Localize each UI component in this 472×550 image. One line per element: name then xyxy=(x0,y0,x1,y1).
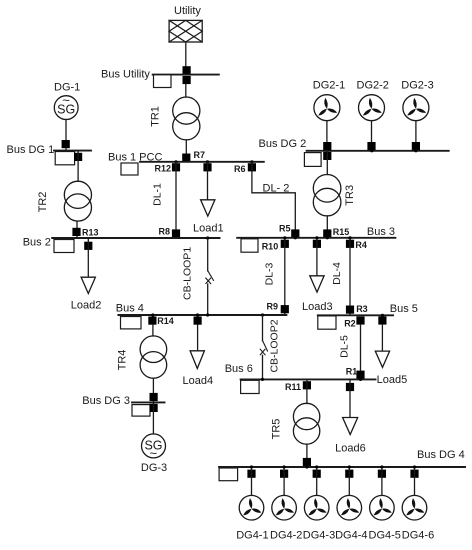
svg-text:CB-LOOP1: CB-LOOP1 xyxy=(181,247,193,300)
bus Bus 4 xyxy=(118,314,286,316)
breaker square upper (utility) xyxy=(183,66,191,74)
svg-text:TR3: TR3 xyxy=(344,185,356,206)
svg-text:TR4: TR4 xyxy=(117,350,129,371)
label DG4-1 xyxy=(236,530,268,542)
relay R14 xyxy=(148,317,156,325)
svg-text:~: ~ xyxy=(150,446,158,461)
wire DG-1 to breaker xyxy=(65,120,67,151)
bus symbol rect (Bus 6) xyxy=(241,380,260,393)
node junction Bus4-R14 xyxy=(151,313,154,316)
wire DG4-1 xyxy=(251,467,253,495)
wire TR2 top xyxy=(77,151,79,182)
wire DG4-4 xyxy=(348,467,350,495)
label DG-1 xyxy=(54,82,80,94)
label Load6 xyxy=(335,442,366,454)
svg-text:Utility: Utility xyxy=(174,5,201,17)
node junction BusDG4-DG4-2 xyxy=(283,465,286,468)
wire R11 to TR5 xyxy=(306,379,308,403)
relay R1 xyxy=(356,371,364,379)
wire DL-3 xyxy=(284,238,286,315)
svg-text:Bus 6: Bus 6 xyxy=(225,363,253,375)
bus symbol rect (Bus 1 PCC) xyxy=(121,163,138,175)
load Load2 triangle xyxy=(81,277,95,293)
node junction BusDG4-DG4-6 xyxy=(413,465,416,468)
label Bus DG 4 xyxy=(417,449,465,461)
wire TR3 to R15 xyxy=(326,216,328,238)
label DG4-5 xyxy=(369,530,401,542)
breaker square DG4-4 xyxy=(345,470,353,478)
bus symbol rect (Bus 3) xyxy=(241,239,258,252)
load Load5 triangle xyxy=(375,351,389,367)
label R5 xyxy=(279,223,291,233)
wire DG2-3 xyxy=(415,121,417,151)
label CB-LOOP1 xyxy=(181,247,193,300)
label R10 xyxy=(262,241,279,251)
breaker square Bus DG 3 upper xyxy=(150,393,158,401)
breaker square DG4-3 xyxy=(313,470,321,478)
wire DG4-3 xyxy=(316,467,318,495)
wire Load1 drop xyxy=(207,162,209,200)
label CB-LOOP2 xyxy=(269,319,281,372)
svg-text:R15: R15 xyxy=(333,227,350,237)
label Bus DG 3 xyxy=(82,395,130,407)
svg-text:Load3: Load3 xyxy=(302,301,333,313)
svg-text:DG2-3: DG2-3 xyxy=(401,80,433,92)
bus Bus Utility xyxy=(153,74,219,76)
bus Bus 2 xyxy=(52,237,219,239)
svg-text:DG4-1: DG4-1 xyxy=(236,530,268,542)
label Utility xyxy=(174,5,201,17)
wire CB-LOOP1 upper xyxy=(207,238,209,271)
load Load6 triangle xyxy=(343,418,358,435)
generator DG-1 xyxy=(54,93,78,120)
breaker square DG4-1 xyxy=(247,470,255,478)
svg-text:R3: R3 xyxy=(356,304,368,314)
svg-text:Bus 2: Bus 2 xyxy=(23,237,51,249)
relay R8 xyxy=(172,229,180,237)
label TR2 xyxy=(37,192,49,213)
relay R13 xyxy=(72,228,80,236)
node junction Bus4-Load4 xyxy=(196,313,199,316)
label DG2-2 xyxy=(357,80,389,92)
node junction Bus1-Load1 xyxy=(206,160,209,163)
wire DG4-6 xyxy=(414,467,416,495)
label DG4-4 xyxy=(335,530,367,542)
wind generator DG2-1 xyxy=(314,95,340,121)
wire CB-LOOP2 lower xyxy=(262,355,264,379)
label R7 xyxy=(194,150,206,160)
wire Load3 drop xyxy=(316,238,318,275)
wire CB-LOOP2 upper xyxy=(262,315,264,341)
breaker square TR3 top xyxy=(323,152,331,160)
load Load1 triangle xyxy=(201,200,215,216)
label Bus DG 1 xyxy=(7,144,55,156)
svg-text:Load2: Load2 xyxy=(71,300,102,312)
label R11 xyxy=(285,382,301,392)
svg-text:R13: R13 xyxy=(82,228,99,238)
svg-text:Bus Utility: Bus Utility xyxy=(101,69,150,81)
svg-text:Bus 1 PCC: Bus 1 PCC xyxy=(108,152,162,164)
wind generator DG4-1 xyxy=(239,495,264,520)
label R2 xyxy=(344,319,356,329)
breaker blade CB-LOOP2 xyxy=(263,341,268,351)
label TR3 xyxy=(344,185,356,206)
node junction Bus4-CBLOOP2 xyxy=(261,313,264,316)
relay Load4 feeder xyxy=(194,317,202,325)
node junction Bus4-CBLOOP1 xyxy=(206,313,209,316)
wind generator DG4-6 xyxy=(402,495,427,520)
svg-text:DG4-4: DG4-4 xyxy=(335,530,367,542)
svg-text:DL-5: DL-5 xyxy=(338,335,350,358)
label Bus 5 xyxy=(390,303,418,315)
label DG4-2 xyxy=(270,530,302,542)
node junction Bus3-Load3 xyxy=(315,236,318,239)
node junction BusDG4-DG4-4 xyxy=(348,465,351,468)
label R14 xyxy=(157,316,174,326)
transformer TR2 xyxy=(64,181,91,221)
transformer TR4 xyxy=(140,336,167,378)
svg-text:R4: R4 xyxy=(355,240,367,250)
relay R2 xyxy=(356,316,364,324)
label DG4-6 xyxy=(402,530,434,542)
label DL-4 xyxy=(331,262,343,285)
breaker square DG2-3 xyxy=(412,142,420,150)
bus symbol rect (Bus Utility) xyxy=(154,75,172,88)
label R4 xyxy=(355,240,367,250)
node junction Bus1-DL2 xyxy=(250,160,253,163)
svg-text:DG4-3: DG4-3 xyxy=(303,530,335,542)
label TR1 xyxy=(150,106,162,127)
relay Load1 feeder xyxy=(203,163,211,171)
svg-text:Bus 3: Bus 3 xyxy=(367,226,395,238)
label DG2-1 xyxy=(313,80,345,92)
label Load5 xyxy=(377,374,408,386)
label Bus 4 xyxy=(116,303,144,315)
label Load3 xyxy=(302,301,333,313)
relay R12 xyxy=(172,163,180,171)
bus Bus DG 1 xyxy=(54,150,91,152)
svg-text:R7: R7 xyxy=(194,150,206,160)
transformer TR1 xyxy=(173,97,200,140)
label DL-1 xyxy=(152,183,164,206)
svg-text:TR1: TR1 xyxy=(150,106,162,127)
svg-text:R14: R14 xyxy=(157,316,174,326)
wire DL-4 xyxy=(349,238,351,315)
wire TR2 to R13 xyxy=(76,221,78,238)
bus Bus 5 xyxy=(318,314,393,316)
node junction Bus3-R5 xyxy=(294,236,297,239)
utility source symbol xyxy=(169,20,202,42)
label R3 xyxy=(356,304,368,314)
wire DG4-5 xyxy=(381,467,383,495)
relay R4 xyxy=(346,240,354,248)
label TR5 xyxy=(271,419,283,440)
breaker square DG2-2 xyxy=(367,142,375,150)
svg-text:R9: R9 xyxy=(267,302,279,312)
relay Load5 feeder xyxy=(378,316,386,324)
wind generator DG4-3 xyxy=(304,495,329,520)
node junction Bus3-DL4 xyxy=(348,236,351,239)
wind generator DG2-2 xyxy=(359,95,385,121)
svg-text:DL- 2: DL- 2 xyxy=(263,182,290,194)
breaker square DG-1 xyxy=(62,140,70,148)
label DL-5 xyxy=(338,335,350,358)
bus Bus DG 4 xyxy=(219,466,465,468)
svg-text:Load5: Load5 xyxy=(377,374,408,386)
bus symbol rect (Bus 5) xyxy=(318,316,336,329)
wire DL-1 xyxy=(175,162,177,238)
label Load1 xyxy=(193,222,224,234)
label Load2 xyxy=(71,300,102,312)
node junction BusDG2-DG2-2 xyxy=(370,149,373,152)
wire TR4 bottom xyxy=(152,378,154,402)
label R8 xyxy=(158,227,170,237)
wire TR4 top xyxy=(152,325,154,336)
node junction BusDG4-DG4-3 xyxy=(315,465,318,468)
breaker square DG4-2 xyxy=(280,470,288,478)
node junction BusDG2-DG2-3 xyxy=(414,149,417,152)
node junction Bus6-R1 xyxy=(359,378,362,381)
svg-text:DL-4: DL-4 xyxy=(331,262,343,285)
node junction BusDG4-DG4-5 xyxy=(380,465,383,468)
label R6 xyxy=(234,164,246,174)
load Load4 triangle xyxy=(190,351,204,369)
label Bus DG 2 xyxy=(259,138,307,150)
svg-text:DG4-5: DG4-5 xyxy=(369,530,401,542)
load Load3 triangle xyxy=(310,276,324,292)
svg-text:Bus 5: Bus 5 xyxy=(390,303,418,315)
bus Bus DG 3 xyxy=(132,401,165,403)
svg-text:Load1: Load1 xyxy=(193,222,224,234)
svg-text:R2: R2 xyxy=(344,319,356,329)
bus symbol rect (Bus DG 4) xyxy=(219,468,238,481)
generator DG-3 xyxy=(142,434,166,461)
breaker square DG4-5 xyxy=(378,470,386,478)
relay Load2 feeder xyxy=(84,242,92,250)
relay Load6 feeder xyxy=(346,383,354,391)
wire Load2 drop xyxy=(87,238,89,277)
svg-text:R5: R5 xyxy=(279,223,291,233)
label R9 xyxy=(267,302,279,312)
wire TR3 top xyxy=(326,151,328,175)
svg-text:R6: R6 xyxy=(234,164,246,174)
bus Bus 1 PCC xyxy=(140,161,264,163)
relay R7 xyxy=(182,154,190,162)
svg-text:TR2: TR2 xyxy=(37,192,49,213)
relay R15 xyxy=(323,229,331,237)
bus symbol rect (Bus DG 3) xyxy=(132,405,150,417)
svg-text:DG2-2: DG2-2 xyxy=(357,80,389,92)
bus Bus 6 xyxy=(241,378,376,380)
transformer TR3 xyxy=(313,175,341,216)
node junction Bus3-TR3 xyxy=(326,236,329,239)
wire TR5 bottom xyxy=(306,444,308,467)
svg-text:Load6: Load6 xyxy=(335,442,366,454)
svg-text:DL-3: DL-3 xyxy=(263,262,275,285)
svg-text:DL-1: DL-1 xyxy=(152,183,164,206)
node junction Bus3-DL3 xyxy=(283,236,286,239)
label Bus Utility xyxy=(101,69,150,81)
svg-text:DG4-6: DG4-6 xyxy=(402,530,434,542)
breaker square Bus DG 3 lower xyxy=(150,404,158,412)
svg-text:Bus DG 4: Bus DG 4 xyxy=(417,449,465,461)
bus symbol rect (Bus DG 2) xyxy=(304,153,321,167)
wind generator DG4-4 xyxy=(337,495,362,520)
label DG-3 xyxy=(141,462,167,474)
relay R11 xyxy=(303,381,311,389)
breaker blade CB-LOOP1 xyxy=(208,271,214,281)
breaker x mark CB-LOOP1 xyxy=(206,278,211,284)
wire Load4 drop xyxy=(197,325,199,351)
svg-text:DG-1: DG-1 xyxy=(54,82,80,94)
svg-text:Bus DG 2: Bus DG 2 xyxy=(259,138,307,150)
wire DG2-2 xyxy=(371,121,373,151)
breaker square DG4-6 xyxy=(410,470,418,478)
bus symbol rect (Bus 2) xyxy=(54,240,74,253)
wire DL-5 xyxy=(360,325,362,380)
relay R5 xyxy=(291,229,299,237)
svg-text:Bus DG 3: Bus DG 3 xyxy=(82,395,130,407)
svg-text:DG-3: DG-3 xyxy=(141,462,167,474)
svg-text:DG2-1: DG2-1 xyxy=(313,80,345,92)
label Bus 3 xyxy=(367,226,395,238)
relay R10 xyxy=(281,240,289,248)
label R12 xyxy=(154,163,171,173)
label Load4 xyxy=(183,375,214,387)
svg-text:R8: R8 xyxy=(158,227,170,237)
wire Load6 drop xyxy=(349,379,351,417)
label DG4-3 xyxy=(303,530,335,542)
wire CB-LOOP1 lower xyxy=(207,284,209,315)
label R13 xyxy=(82,228,99,238)
svg-text:R10: R10 xyxy=(262,241,279,251)
label Bus 2 xyxy=(23,237,51,249)
relay Load3 feeder xyxy=(313,240,321,248)
svg-text:DG4-2: DG4-2 xyxy=(270,530,302,542)
wind generator DG2-3 xyxy=(403,95,429,121)
node junction Bus5-Load5 xyxy=(381,314,384,317)
bus symbol rect (Bus 4) xyxy=(121,317,142,329)
svg-text:R12: R12 xyxy=(154,163,171,173)
relay R6 xyxy=(248,163,256,171)
node junction Bus6-CBLOOP2 xyxy=(261,378,264,381)
label TR4 xyxy=(117,350,129,371)
wind generator DG4-5 xyxy=(370,495,395,520)
svg-text:TR5: TR5 xyxy=(271,419,283,440)
wire DG4-2 xyxy=(283,467,285,495)
wire Load5 drop xyxy=(381,325,383,351)
transformer TR5 xyxy=(293,403,319,444)
svg-text:R1: R1 xyxy=(346,367,358,377)
breaker square lower (utility) xyxy=(183,76,191,84)
wire DG2-1 xyxy=(326,121,328,151)
label R15 xyxy=(333,227,350,237)
svg-text:R11: R11 xyxy=(285,382,301,392)
svg-text:Load4: Load4 xyxy=(183,375,214,387)
bus symbol rect (Bus DG 1) xyxy=(55,152,74,165)
node junction Bus2-CBLOOP1 xyxy=(206,236,209,239)
bus Bus DG 2 xyxy=(307,150,449,152)
node junction BusDG4-DG4-1 xyxy=(250,465,253,468)
wire to DG-3 xyxy=(152,402,154,434)
relay R3 xyxy=(346,306,354,314)
breaker x mark CB-LOOP2 xyxy=(260,349,265,355)
label DL-3 xyxy=(263,262,275,285)
svg-text:~: ~ xyxy=(62,93,70,108)
wind generator DG4-2 xyxy=(272,495,297,520)
label DG2-3 xyxy=(401,80,433,92)
label Bus 6 xyxy=(225,363,253,375)
node junction Bus1-DL1 xyxy=(174,160,177,163)
relay R9 xyxy=(281,305,289,313)
svg-text:Bus DG 1: Bus DG 1 xyxy=(7,144,55,156)
wire TR1 to R7 xyxy=(185,140,187,154)
bus Bus 3 xyxy=(237,237,395,239)
wire breaker to TR1 xyxy=(185,84,187,97)
svg-text:Bus 4: Bus 4 xyxy=(116,303,144,315)
node junction BusDG4-TR5 xyxy=(305,465,308,468)
label DL- 2 xyxy=(263,182,290,194)
wire DL-2 path xyxy=(252,162,295,238)
wire utility to breaker xyxy=(185,42,187,67)
breaker square TR2 top xyxy=(74,153,82,161)
breaker square TR5 xyxy=(303,458,311,466)
breaker square DG2-1 xyxy=(323,142,331,150)
svg-text:CB-LOOP2: CB-LOOP2 xyxy=(269,319,281,372)
label R1 xyxy=(346,367,358,377)
label Bus 1 PCC xyxy=(108,152,162,164)
